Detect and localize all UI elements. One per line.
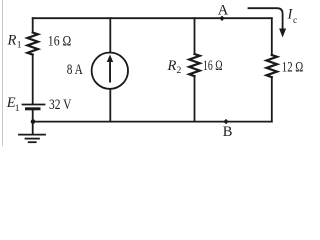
svg-text:12 Ω: 12 Ω <box>282 59 304 75</box>
svg-text:R: R <box>167 58 177 74</box>
svg-text:8 A: 8 A <box>67 62 83 78</box>
svg-text:c: c <box>293 16 297 26</box>
svg-text:R: R <box>7 33 17 49</box>
svg-text:1: 1 <box>17 41 22 51</box>
svg-text:16 Ω: 16 Ω <box>48 33 72 49</box>
svg-text:16 Ω: 16 Ω <box>203 58 223 74</box>
svg-text:A: A <box>218 2 229 18</box>
svg-text:32 V: 32 V <box>49 97 72 113</box>
svg-text:B: B <box>223 124 233 140</box>
svg-text:1: 1 <box>15 104 20 114</box>
svg-text:2: 2 <box>177 66 182 76</box>
